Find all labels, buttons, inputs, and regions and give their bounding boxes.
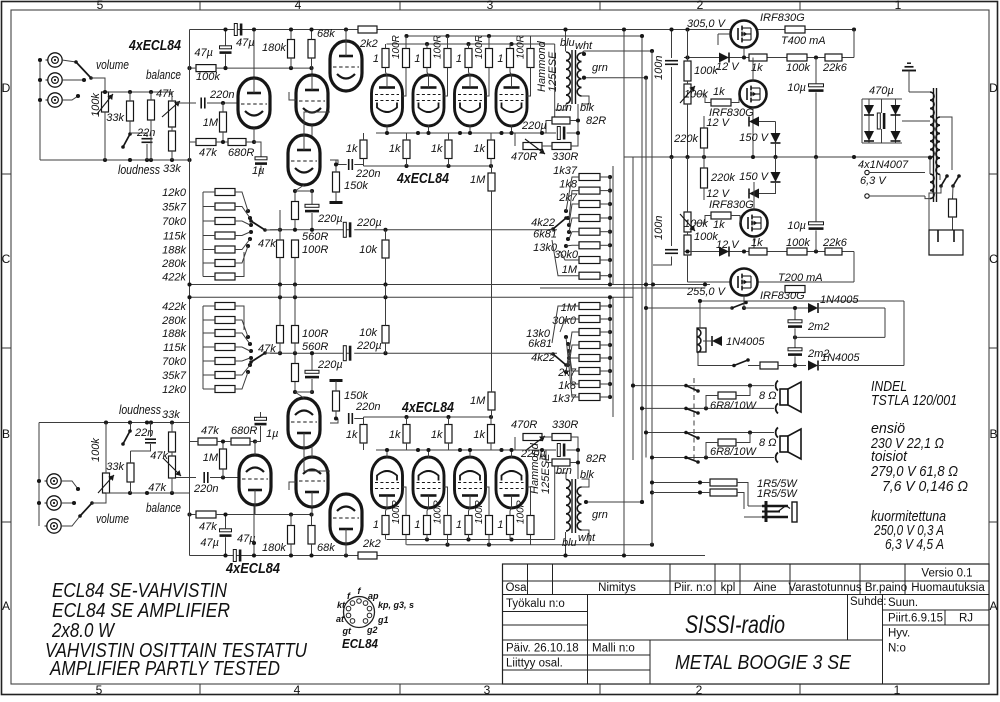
- wire cathode lead P3 bottom: [469, 450, 471, 458]
- svg-text:IRF830G: IRF830G: [760, 12, 805, 24]
- wire attenuator left 188k top: [203, 249, 215, 251]
- wire screen res top lead P3: [488, 36, 490, 49]
- resistor 10k bottom: [382, 326, 389, 344]
- triode V2a: [296, 75, 328, 125]
- wire 220u to blk node bottom: [567, 450, 579, 463]
- title block grid lines: [503, 564, 990, 684]
- resistor 1k grid x491 top: [488, 140, 495, 159]
- svg-text:1k37: 1k37: [552, 393, 577, 405]
- switch mains b: [951, 174, 961, 188]
- potentiometer volume 100k bottom: [98, 473, 114, 493]
- svg-text:1k: 1k: [431, 143, 443, 155]
- junction 2m2: [793, 306, 797, 340]
- junction blu rail: [563, 27, 567, 31]
- transformer mains core: [933, 88, 935, 202]
- wire V1b cathode to node: [254, 442, 256, 456]
- junction blu rail bottom: [563, 553, 567, 557]
- wire grid bus top: [364, 165, 492, 167]
- svg-text:brn: brn: [556, 102, 572, 114]
- wire ladder left y190.6 top: [569, 191, 579, 218]
- svg-text:1M: 1M: [470, 395, 486, 407]
- svg-text:100k: 100k: [196, 71, 220, 83]
- wire volume pot top bottom-ch: [105, 423, 107, 474]
- wire delay return y301: [700, 300, 904, 302]
- resistor 220k bottom: [701, 168, 708, 188]
- junction 68k rail: [309, 27, 313, 31]
- svg-text:100R: 100R: [391, 500, 402, 524]
- wire ladder bus bottom: [609, 297, 611, 397]
- wire supply chain top: [684, 57, 854, 59]
- junction wht bottom: [650, 543, 654, 547]
- switch input selector bottom: [72, 487, 94, 518]
- wire 1k lower x491 bottom: [490, 443, 492, 450]
- wire V3b anode to rail: [345, 544, 347, 556]
- wire grid bus bottom: [364, 416, 492, 418]
- svg-text:volume: volume: [96, 512, 129, 526]
- svg-text:A: A: [989, 599, 997, 613]
- wire attenuator right y235.5 top: [235, 232, 250, 236]
- resistor 1k chain bottom: [749, 248, 767, 255]
- wire stage2 node bus top: [270, 229, 351, 231]
- wire ladder left y231.7 top: [569, 232, 579, 239]
- wire 2m2 link: [794, 328, 796, 348]
- pentode P3 top: [455, 75, 486, 126]
- wire V4a cathode lead: [295, 185, 304, 191]
- wire 10k upper: [385, 230, 387, 240]
- resistor ladder y177 top: [579, 174, 600, 181]
- wire selector to volume pot bottom: [92, 493, 106, 503]
- wire ladder right y177 top: [600, 176, 610, 178]
- input jack J5: [45, 496, 62, 510]
- capacitor 22n input bottom: [145, 438, 156, 440]
- svg-text:4xECL84: 4xECL84: [396, 171, 449, 187]
- wire vertical x646: [645, 78, 647, 458]
- junction grn tap top: [582, 76, 648, 80]
- pentode P2 top: [413, 75, 444, 126]
- wire 100k left lead: [190, 67, 197, 69]
- svg-text:D: D: [989, 81, 998, 95]
- resistor ladder y306 bottom: [579, 303, 600, 310]
- resistor 1k tail bottom: [277, 326, 284, 344]
- wire attenuator right y206.5 top: [235, 207, 250, 219]
- wire ladder left y218 top: [569, 218, 579, 232]
- wire 33k to loudness node: [129, 121, 131, 133]
- wire 220u to blk node: [567, 121, 579, 134]
- wire 33k top stub bottom: [130, 423, 132, 433]
- wire screen res top lead P1: [405, 36, 407, 49]
- junction 100n rail: [669, 27, 673, 31]
- junction 1R5 x652: [650, 480, 654, 494]
- transformer core top: [571, 50, 573, 104]
- wire screen res to tube P2: [444, 68, 448, 97]
- wire 1k lower x491: [490, 159, 492, 167]
- wire 100n lower lead: [671, 67, 673, 157]
- wire 1M top lead: [222, 103, 224, 112]
- wire cross-channel x491: [491, 230, 493, 353]
- transformer mains primary winding: [936, 117, 940, 174]
- svg-text:AMPLIFIER PARTLY TESTED: AMPLIFIER PARTLY TESTED: [48, 657, 280, 680]
- resistor 100k chain bottom: [787, 248, 807, 255]
- wire attenuator right y192 top: [235, 192, 248, 211]
- switch delay top: [730, 301, 748, 310]
- wire 220n to grid bottom: [210, 477, 238, 479]
- wire V4b anode to 220n bottom: [330, 419, 338, 424]
- input jack J6: [45, 519, 62, 533]
- resistor ladder y345 bottom: [579, 342, 600, 349]
- wire ladder right y306 bottom: [600, 305, 610, 307]
- wire secondary upper lead bottom: [582, 479, 590, 487]
- svg-text:loudness: loudness: [119, 403, 161, 417]
- wire ladder left y204 top: [569, 204, 579, 225]
- wire cathode lead P1 bottom: [386, 450, 388, 458]
- junction anode bus: [425, 42, 471, 46]
- svg-text:1k: 1k: [473, 143, 485, 155]
- svg-text:68k: 68k: [317, 542, 335, 554]
- capacitor 220n coupling bottom: [203, 472, 205, 483]
- terminal speaker1 minus: [776, 403, 778, 413]
- resistor attenuator 35k7 top: [215, 203, 235, 210]
- wire primary upper lead bottom: [555, 473, 566, 479]
- wire 150k top lead: [335, 160, 337, 172]
- wire 100R lower bottom: [294, 343, 296, 353]
- wire attenuator left 35k7 top: [203, 206, 215, 208]
- svg-text:1k: 1k: [346, 429, 358, 441]
- svg-text:1: 1: [894, 683, 901, 697]
- wire 220u to node bus: [311, 213, 313, 230]
- wire 1k upper x406.5 bottom: [406, 417, 408, 425]
- svg-text:6,3 V: 6,3 V: [860, 175, 887, 187]
- svg-text:12 V: 12 V: [716, 61, 740, 73]
- speaker SP2: [780, 429, 801, 459]
- wire bottom psu rail: [688, 281, 731, 283]
- wire 1M bias upper: [491, 166, 493, 173]
- wire V4b cathode lead bottom: [295, 392, 304, 398]
- svg-text:680R: 680R: [231, 425, 257, 437]
- wire 2m2 lower lead: [794, 356, 796, 365]
- wire ladder right y275.7 top: [600, 275, 610, 277]
- svg-text:13k0: 13k0: [526, 328, 551, 340]
- wire attenuator wiper top: [265, 229, 280, 231]
- wire rectifier frame: [862, 98, 902, 100]
- potentiometer balance: [162, 101, 180, 127]
- transformer mains secondary winding: [930, 92, 934, 158]
- wire screen res to tube P4 bottom: [527, 487, 531, 516]
- svg-text:balance: balance: [146, 68, 181, 82]
- resistor balance lower: [169, 131, 176, 151]
- wire 1M bias upper bottom: [491, 353, 493, 392]
- wire 47u lower lead: [225, 54, 227, 68]
- resistor ladder y358 bottom: [579, 355, 600, 362]
- wire supply bus y514 bottom: [216, 514, 313, 516]
- svg-text:1: 1: [414, 53, 420, 65]
- ground bar bottom channel: [330, 379, 343, 382]
- svg-text:5: 5: [96, 683, 103, 697]
- resistor 1R5/5W upper: [710, 479, 737, 486]
- junction input bus: [38, 58, 192, 162]
- resistor 100R screen P1 top: [403, 49, 410, 68]
- svg-text:Suhde:: Suhde:: [850, 596, 886, 608]
- resistor attenuator 280k top: [215, 260, 235, 267]
- wire 330R right bottom: [571, 437, 578, 450]
- wire Q4 source to delay: [743, 296, 745, 309]
- capacitor 470u reservoir: [877, 113, 884, 129]
- svg-text:22k6: 22k6: [822, 62, 848, 74]
- wire anode res lower P4 bottom: [509, 535, 511, 540]
- junction wht top: [582, 49, 654, 56]
- wire cathode lead P2 bottom: [428, 450, 430, 458]
- wire tube V1a anode riser: [253, 30, 255, 79]
- resistor 100k vertical bottom: [684, 235, 691, 255]
- resistor 100R screen P2 top: [444, 49, 451, 68]
- junction stage2 bus: [278, 228, 388, 232]
- resistor 1k gate top: [711, 99, 731, 106]
- svg-text:8 Ω: 8 Ω: [759, 390, 777, 402]
- wire anode res to tube P1: [386, 68, 388, 76]
- capacitor 220n interstage top: [348, 159, 350, 170]
- svg-text:Piirt.6.9.15: Piirt.6.9.15: [888, 613, 943, 625]
- svg-text:Piir. n:o: Piir. n:o: [674, 582, 712, 594]
- switch delay bottom: [732, 358, 750, 367]
- wire 1k lower x448.5: [448, 159, 450, 167]
- wire attenuator right y320 bottom: [235, 320, 248, 337]
- wire 1u lower lead: [260, 166, 262, 173]
- wire 100k left lead bottom: [190, 514, 197, 516]
- junction delay feed: [644, 306, 746, 310]
- wire screen res lower P3 bottom: [488, 535, 490, 545]
- capacitor 22n input: [142, 138, 153, 140]
- wire 1k lower x363.5 bottom: [363, 443, 365, 450]
- svg-text:IRF830G: IRF830G: [709, 199, 754, 211]
- wire speaker2 feed bottom: [652, 457, 774, 459]
- svg-text:22k6: 22k6: [822, 237, 848, 249]
- wire 1k upper x491: [490, 133, 492, 140]
- wire screen res to tube P1 bottom: [403, 487, 407, 516]
- wire Q4 drain lead: [743, 269, 745, 283]
- svg-text:70k0: 70k0: [162, 216, 187, 228]
- wire cathode lead P4 bottom: [511, 450, 513, 458]
- wire cathode lead P3: [469, 126, 471, 134]
- resistor 1M grid top: [220, 112, 227, 132]
- svg-text:12k0: 12k0: [162, 187, 187, 199]
- svg-text:279,0 V 61,8 Ω: 279,0 V 61,8 Ω: [870, 464, 958, 480]
- svg-text:4k22: 4k22: [531, 217, 555, 229]
- wire 100n upper lead bottom: [671, 157, 673, 246]
- svg-text:2k2: 2k2: [362, 538, 381, 550]
- svg-text:33k: 33k: [106, 112, 124, 124]
- svg-text:30k0: 30k0: [554, 249, 579, 261]
- svg-text:220n: 220n: [209, 89, 234, 101]
- resistor delay: [760, 362, 778, 369]
- svg-text:680R: 680R: [228, 147, 254, 159]
- wire mid vertical x613 top: [612, 166, 614, 285]
- wire vertical x642: [641, 36, 643, 502]
- wire grn tap bottom: [586, 501, 642, 503]
- wire Q2 drain lead: [752, 58, 754, 81]
- svg-text:A: A: [2, 599, 10, 613]
- wire attenuator left 422k top: [203, 276, 215, 278]
- resistor 22k6 bottom: [825, 248, 842, 255]
- capacitor 220u output bottom: [557, 444, 564, 457]
- wire jack5 to selector: [61, 502, 74, 504]
- svg-text:gt: gt: [342, 626, 352, 636]
- wire V2a cathode stub: [311, 125, 313, 136]
- svg-text:6R8/10W: 6R8/10W: [710, 400, 757, 412]
- resistor 1k grid x448.5 top: [445, 140, 452, 159]
- resistor 150k top: [333, 172, 340, 192]
- svg-text:100k: 100k: [90, 93, 102, 117]
- junction cathode node top: [293, 189, 314, 193]
- capacitor 47u decoupling top: [220, 46, 232, 53]
- wire 560R to node bus: [294, 220, 296, 230]
- wire tail upper: [279, 210, 281, 240]
- svg-text:C: C: [2, 252, 11, 266]
- resistor 1R anode P2 top: [424, 49, 431, 68]
- wire cathode drop bottom: [294, 382, 296, 393]
- resistor 47k balance top: [148, 100, 155, 120]
- svg-text:1k: 1k: [389, 429, 401, 441]
- svg-text:4: 4: [295, 0, 302, 12]
- wire attenuator left 70k0 bottom: [203, 360, 215, 362]
- speaker SP1: [780, 382, 801, 412]
- junction anode bus bottom: [425, 537, 471, 541]
- wire ladder right y245.3 top: [600, 244, 610, 246]
- svg-text:188k: 188k: [162, 328, 186, 340]
- wire 1k lower x363.5: [363, 159, 365, 167]
- resistor 82R top: [552, 117, 570, 124]
- svg-text:Suun.: Suun.: [888, 597, 918, 609]
- capacitor 220u bypass bottom: [305, 370, 319, 377]
- svg-text:wht: wht: [578, 532, 596, 544]
- capacitor 100n bottom: [665, 249, 678, 251]
- resistor 100R screen P3 bottom: [486, 516, 493, 535]
- resistor 82R bottom: [552, 459, 570, 466]
- wire 220k upper lead: [703, 116, 705, 128]
- wire balance mid bottom: [171, 452, 173, 456]
- svg-text:82R: 82R: [586, 453, 606, 465]
- wire volume bottom node: [106, 492, 190, 494]
- triode V4a phase: [288, 135, 320, 185]
- svg-text:1: 1: [414, 519, 420, 531]
- wire screen res to tube P4: [527, 68, 531, 97]
- svg-text:33k: 33k: [162, 409, 180, 421]
- wire Q1 gate stub: [718, 33, 731, 35]
- wire screen res to tube P2 bottom: [444, 487, 448, 516]
- svg-text:100R: 100R: [302, 244, 328, 256]
- wire ladder left y358 bottom: [569, 357, 579, 359]
- wire screen bus top: [407, 35, 643, 37]
- wire ladder right y397 bottom: [600, 396, 610, 398]
- junction screen bus: [404, 34, 513, 46]
- svg-text:1R5/5W: 1R5/5W: [757, 488, 798, 500]
- wire 470u lower lead: [881, 129, 883, 143]
- svg-text:47k: 47k: [199, 147, 217, 159]
- resistor 1k grid x363.5 top: [360, 140, 367, 159]
- switch rotary attenuator bottom: [246, 335, 267, 374]
- junction stage2 bus bottom: [278, 351, 388, 355]
- wire 150k to 220n node bottom: [336, 411, 338, 419]
- fuse T200mA: [785, 286, 805, 293]
- zener 12V Q3: [749, 189, 759, 199]
- wire 1u upper lead bottom: [260, 412, 262, 418]
- junction grid bottom: [221, 475, 225, 479]
- svg-text:Osa: Osa: [505, 582, 527, 594]
- wire 1k lower x406.5: [406, 159, 408, 167]
- svg-text:RJ: RJ: [959, 613, 973, 625]
- triode V4b phase: [288, 398, 320, 448]
- resistor attenuator 115k bottom: [215, 344, 235, 351]
- capacitor 100n top: [665, 60, 678, 62]
- resistor 1M bias top: [488, 173, 495, 191]
- resistor attenuator 422k top: [215, 273, 235, 280]
- junction cathode bus bottom: [385, 448, 514, 452]
- svg-text:3: 3: [487, 0, 494, 12]
- junction volume node: [103, 90, 153, 94]
- wire V3a anode to rail: [345, 30, 347, 42]
- wire attenuator left 280k bottom: [203, 319, 215, 321]
- pentode P4 top: [496, 75, 527, 126]
- svg-text:100n: 100n: [653, 216, 665, 240]
- resistor 1R5/5W lower: [710, 489, 737, 496]
- svg-text:1M: 1M: [203, 452, 219, 464]
- svg-text:Päiv. 26.10.18: Päiv. 26.10.18: [506, 643, 579, 655]
- svg-text:Hyv.: Hyv.: [888, 628, 910, 640]
- wire cathode lead P2: [428, 126, 430, 134]
- svg-text:Aine: Aine: [753, 582, 776, 594]
- svg-text:toisiot: toisiot: [871, 449, 908, 465]
- junction ladder bus top: [608, 175, 612, 278]
- wire attenuator 422k bottom: [235, 306, 244, 330]
- svg-text:188k: 188k: [162, 245, 186, 257]
- resistor attenuator 70k0 top: [215, 218, 235, 225]
- junction x624: [622, 27, 626, 557]
- capacitor 220n interstage bottom: [348, 413, 350, 424]
- resistor 1k grid x363.5 bottom: [360, 425, 367, 444]
- transformer primary winding bottom: [566, 479, 570, 531]
- wire rectifier to transformer: [902, 120, 930, 122]
- wire relay diode link: [703, 340, 712, 342]
- svg-text:1N4005: 1N4005: [726, 336, 765, 348]
- wire B+ vertical x624: [623, 30, 625, 556]
- svg-text:47k: 47k: [199, 521, 217, 533]
- wire 470R left bottom: [515, 437, 542, 450]
- junction 1R5: [698, 480, 702, 494]
- wire screen res lower P1 bottom: [405, 535, 407, 545]
- wire 220k upper lead bottom: [703, 157, 705, 168]
- svg-text:TSTLA 120/001: TSTLA 120/001: [871, 393, 957, 409]
- wire to bypass cap bottom: [295, 379, 312, 392]
- wire 82R to blk: [570, 104, 578, 121]
- svg-text:220n: 220n: [355, 401, 380, 413]
- svg-text:10k: 10k: [359, 327, 377, 339]
- wire ladder left y371 bottom: [569, 351, 579, 371]
- wire ladder left y384 bottom: [569, 344, 579, 384]
- svg-text:1: 1: [373, 519, 379, 531]
- junction grid bus top: [334, 162, 493, 168]
- title block outline: [503, 564, 990, 684]
- triode V1b: [239, 455, 271, 505]
- wire 100n upper lead: [671, 30, 673, 59]
- switch loudness: [121, 132, 132, 149]
- svg-text:47µ: 47µ: [236, 37, 255, 49]
- wire 1R5 lower feed: [652, 492, 710, 494]
- resistor ladder y275.7 top: [579, 272, 600, 279]
- junction transformer mid: [928, 156, 932, 160]
- wire jack2 to selector: [62, 79, 84, 81]
- svg-text:280k: 280k: [161, 258, 186, 270]
- wire 220k lower lead bottom: [703, 188, 705, 200]
- wire jack6 to selector: [61, 516, 80, 526]
- wire secondary bottom lead: [582, 96, 590, 104]
